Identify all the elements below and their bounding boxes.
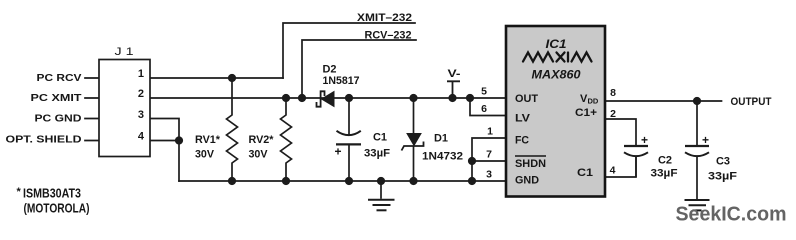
svg-text:33µF: 33µF [708, 171, 737, 183]
MAXIM logo [523, 53, 592, 62]
IC pin labels (inside) [515, 93, 599, 187]
capacitor C3 33uF [685, 101, 737, 199]
wire J1 lead dashes [85, 78, 99, 141]
svg-text:6: 6 [481, 103, 487, 115]
wire RCV-232 line [302, 40, 416, 98]
svg-text:8: 8 [610, 87, 616, 99]
svg-text:RCV–232: RCV–232 [365, 30, 412, 42]
svg-text:C2: C2 [658, 155, 672, 167]
wire pin1 FC tie [472, 138, 506, 181]
svg-text:C1: C1 [373, 132, 387, 144]
capacitor C2 33uF [624, 133, 678, 180]
svg-text:MAX860: MAX860 [532, 70, 582, 82]
svg-text:33µF: 33µF [364, 148, 390, 160]
diode D2 1N5817 (Schottky) [317, 64, 360, 107]
J1 left labels [6, 72, 83, 146]
svg-text:PC GND: PC GND [35, 113, 82, 125]
svg-text:4: 4 [138, 131, 145, 143]
svg-text:FC: FC [515, 135, 529, 147]
svg-text:ISMB30AT3: ISMB30AT3 [23, 186, 81, 201]
svg-text:+: + [335, 145, 342, 159]
svg-text:2: 2 [610, 108, 616, 120]
svg-text:1: 1 [487, 126, 493, 138]
svg-text:30V: 30V [249, 149, 269, 161]
wire XMIT-232 line [283, 23, 415, 78]
wire pin6 LV tie [470, 98, 506, 116]
varistor RV2 [281, 98, 292, 181]
svg-text:2: 2 [138, 88, 144, 100]
svg-text:DD: DD [588, 97, 599, 106]
wire OPT SHIELD pin4 [150, 140, 179, 142]
op IC1 MAX860 body [506, 26, 605, 197]
svg-text:3: 3 [138, 109, 144, 121]
svg-text:+: + [641, 133, 648, 147]
wire PC RCV pin1 [150, 77, 283, 79]
svg-text:(MOTOROLA): (MOTOROLA) [24, 201, 90, 216]
svg-text:LV: LV [515, 113, 531, 125]
svg-text:PC RCV: PC RCV [37, 72, 82, 84]
wire PC GND pin3 [150, 119, 179, 182]
svg-text:+: + [702, 133, 709, 147]
svg-text:C1+: C1+ [575, 107, 597, 119]
zener D1 1N4732 [402, 98, 464, 181]
svg-text:7: 7 [486, 149, 492, 161]
wire pin4 C1- bracket [605, 157, 636, 177]
svg-text:1N4732: 1N4732 [422, 151, 463, 163]
connector J1 [99, 46, 150, 157]
terminal V- [447, 68, 461, 98]
svg-text:5: 5 [481, 86, 487, 98]
svg-text:30V: 30V [195, 149, 215, 161]
varistor RV1 [227, 78, 238, 181]
svg-text:3: 3 [486, 169, 492, 181]
svg-text:C3: C3 [716, 156, 730, 168]
IC pin numbers (outside) [481, 86, 616, 181]
svg-text:D1: D1 [434, 133, 448, 145]
wire PC XMIT / V- net [150, 97, 506, 99]
svg-text:SeekIC.com: SeekIC.com [676, 204, 787, 226]
svg-text:XMIT–232: XMIT–232 [357, 12, 412, 24]
svg-text:1: 1 [138, 68, 144, 80]
svg-text:J 1: J 1 [115, 46, 134, 58]
svg-text:*: * [17, 186, 22, 198]
svg-text:IC1: IC1 [546, 39, 567, 51]
svg-text:V-: V- [448, 68, 461, 80]
wire pin2 C1+ bracket [605, 119, 636, 146]
wire ground bus [179, 180, 506, 182]
svg-text:1N5817: 1N5817 [323, 75, 360, 87]
svg-text:RV1*: RV1* [195, 134, 221, 146]
svg-text:GND: GND [515, 175, 539, 187]
svg-text:PC XMIT: PC XMIT [31, 92, 83, 104]
svg-text:OUT: OUT [515, 93, 538, 105]
capacitor C1 33uF [335, 98, 391, 181]
svg-text:OUTPUT: OUTPUT [731, 96, 772, 108]
wire pin7 SHDN stub [472, 160, 506, 162]
ground (main, at C1 right) [368, 181, 395, 210]
wire pin8 output [605, 100, 722, 102]
svg-text:4: 4 [610, 165, 616, 177]
ground (under C3) [685, 200, 710, 210]
svg-text:RV2*: RV2* [249, 134, 275, 146]
svg-text:OPT. SHIELD: OPT. SHIELD [6, 134, 82, 146]
svg-text:33µF: 33µF [651, 168, 678, 180]
svg-text:D2: D2 [323, 64, 337, 76]
svg-text:C1: C1 [577, 167, 593, 179]
svg-text:SHDN: SHDN [515, 158, 546, 170]
